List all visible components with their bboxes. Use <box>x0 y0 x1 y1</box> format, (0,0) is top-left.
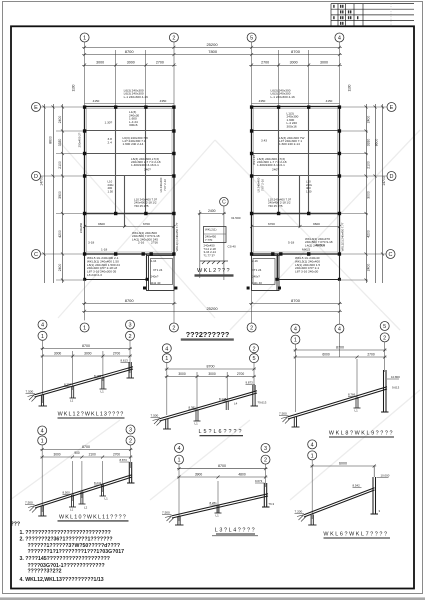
svg-text:9.873: 9.873 <box>246 381 254 385</box>
D1 left end hatches <box>28 395 37 402</box>
D4 dim 8700 <box>40 448 132 451</box>
bubble 2 detail3 right lower <box>380 333 389 342</box>
D5 mid column L1 <box>215 505 222 513</box>
svg-text:2400: 2400 <box>367 264 371 272</box>
svg-text:XT1 24: XT1 24 <box>153 268 163 272</box>
svg-text:1111 40: 1111 40 <box>252 281 262 285</box>
D1 dim 8700 <box>41 347 133 350</box>
D4 mid column L1 <box>69 495 76 508</box>
svg-text:8.185: 8.185 <box>94 374 102 378</box>
D1 mid column L1 b <box>100 377 107 389</box>
right stair box <box>252 256 280 291</box>
D6 left end hatches <box>297 515 306 522</box>
svg-text:3000: 3000 <box>54 352 62 356</box>
left plan band4 small bits <box>108 180 115 194</box>
svg-text:4: 4 <box>311 442 314 448</box>
top dimension line 3000 3000 2700 | 2700 3000 3000 <box>82 64 342 67</box>
svg-text:2700: 2700 <box>261 61 269 65</box>
svg-text:900: 900 <box>74 451 80 455</box>
bubble 2 detail1 right lower <box>126 331 135 340</box>
right plan interior dim line 6700/9600 <box>250 225 341 228</box>
svg-text:1100: 1100 <box>348 84 352 91</box>
D2 mid column L1 <box>194 410 201 422</box>
verticals from plan bottom to bottom bubbles <box>85 280 340 325</box>
D2 sloped beam <box>160 391 258 421</box>
bottom dim 8700 right <box>249 302 342 305</box>
D6 axis line <box>311 460 313 519</box>
svg-text:L3?L4????: L3?L4???? <box>215 527 256 533</box>
svg-text:3000: 3000 <box>178 372 186 376</box>
D1 sloped beam <box>35 367 134 397</box>
svg-text:1.50: 1.50 <box>306 189 312 193</box>
WKL2 reinforcement text <box>204 244 237 258</box>
right plan interior beams <box>252 107 340 228</box>
left plan cell texts band2 <box>108 136 149 146</box>
svg-text:31.500: 31.500 <box>231 216 241 220</box>
svg-text:???????1?1????????1???1?03G?01: ???????1?1????????1???1?03G?017 <box>28 549 125 555</box>
svg-text:1: 1 <box>177 458 180 464</box>
svg-text:3330: 3330 <box>58 139 62 147</box>
D2 right column <box>251 385 259 406</box>
D4 mid column L1 b <box>100 485 107 497</box>
D1 axis lines <box>43 340 131 403</box>
bubble 1 plan-right-right <box>335 324 344 333</box>
svg-text:8700: 8700 <box>82 445 90 449</box>
svg-text:7.500: 7.500 <box>26 390 34 394</box>
D1 mid column L1 a <box>70 386 77 399</box>
svg-text:4: 4 <box>41 323 44 329</box>
svg-text:1: 1 <box>311 453 314 459</box>
svg-text:CS-40: CS-40 <box>228 245 237 249</box>
svg-text:4: 4 <box>41 429 44 435</box>
D6 left column and foot <box>308 515 316 526</box>
svg-text:25200: 25200 <box>206 42 218 47</box>
D3 sloped beam <box>288 387 387 419</box>
svg-text:5-18: 5-18 <box>288 241 294 245</box>
svg-text:L4: L4 <box>234 402 238 406</box>
svg-text:4: 4 <box>338 36 341 42</box>
svg-text:7800: 7800 <box>208 49 218 54</box>
right plan columns <box>247 105 342 289</box>
axis bubble C right <box>386 250 395 259</box>
top dimension line 8700/7800/8700 <box>82 53 342 56</box>
svg-text:4200: 4200 <box>367 230 371 238</box>
svg-text:2700: 2700 <box>156 61 164 65</box>
svg-text:1: 1 <box>165 356 168 362</box>
svg-text:2.4: 2.4 <box>108 141 113 145</box>
svg-text:8700: 8700 <box>336 346 344 350</box>
svg-text:2700: 2700 <box>113 453 120 457</box>
svg-text:2700: 2700 <box>237 372 245 376</box>
svg-text:1111 40: 1111 40 <box>151 281 161 285</box>
right plan main interior beam at axis C' <box>252 213 340 215</box>
svg-text:WKL12?WKL13????: WKL12?WKL13???? <box>58 412 125 418</box>
right plan extension row texts <box>295 256 320 274</box>
svg-text:6000: 6000 <box>322 353 330 357</box>
right plan bottom extension row <box>278 254 340 280</box>
svg-text:L1: L1 <box>355 409 359 413</box>
WKL2 detail axis lines <box>200 206 224 280</box>
bubble 1 plan-left <box>80 323 89 332</box>
svg-text:L8? 3-16 240x30: L8? 3-16 240x30 <box>295 270 319 274</box>
svg-text:9600: 9600 <box>98 222 105 226</box>
left plan text cluster above top edge <box>124 89 149 99</box>
left plan interior beams <box>85 107 175 228</box>
svg-text:WKL8?WKL9????: WKL8?WKL9???? <box>329 430 394 436</box>
svg-text:2100: 2100 <box>89 453 96 457</box>
svg-text:2: 2 <box>383 335 386 341</box>
svg-text:10.000: 10.000 <box>381 474 390 478</box>
svg-text:2100: 2100 <box>367 161 371 169</box>
svg-text:WKL1(1) 240x450 7.77: WKL1(1) 240x450 7.77 <box>175 222 179 251</box>
svg-text:L-1 240x300 4-16: L-1 240x300 4-16 <box>271 95 296 99</box>
svg-text:2400: 2400 <box>208 209 216 213</box>
D3 mid column L1 <box>354 397 361 408</box>
svg-text:2-16: 2-16 <box>252 259 258 263</box>
svg-text:4350: 4350 <box>160 99 167 103</box>
left plan bottom edge bits <box>88 241 158 252</box>
left stair texts <box>151 259 163 285</box>
left plan outer walls <box>85 107 175 255</box>
right plan cell texts band2 <box>261 136 305 146</box>
svg-text:2?16: 2?16 <box>151 241 158 245</box>
svg-text:L8 240 2-3: L8 240 2-3 <box>87 273 102 277</box>
D6 axis bubbles <box>308 440 317 460</box>
svg-text:300x6: 300x6 <box>129 123 138 127</box>
D4 axis bubbles <box>38 425 135 445</box>
axis bubble 5 top <box>247 33 256 42</box>
svg-text:8.148: 8.148 <box>219 397 227 401</box>
svg-text:?40 25 2?5: ?40 25 2?5 <box>134 204 149 208</box>
D3 right column bar <box>381 370 389 412</box>
svg-text:300x16: 300x16 <box>287 124 297 128</box>
left plan extension row texts <box>87 256 120 277</box>
D3 left end hatches <box>281 417 290 424</box>
svg-text:1: 1 <box>41 439 44 445</box>
svg-text:M?6.3: M?6.3 <box>316 243 325 247</box>
D5 right column bar <box>262 483 270 507</box>
svg-text:7.07 2-16: 7.07 2-16 <box>163 179 167 191</box>
bubble 4 detail3 <box>291 324 300 333</box>
svg-text:3000: 3000 <box>290 61 298 65</box>
svg-text:1.600 240 2-14: 1.600 240 2-14 <box>279 142 300 146</box>
svg-text:2-16: 2-16 <box>138 241 144 245</box>
D3 dim 6000/2700 <box>293 356 386 359</box>
svg-text:4. WKL12,WKL13??????????1/13: 4. WKL12,WKL13??????????1/13 <box>20 577 104 583</box>
title block table <box>331 4 414 27</box>
svg-text:2: 2 <box>172 326 175 332</box>
svg-text:2700: 2700 <box>113 352 121 356</box>
svg-text:1: 1 <box>294 338 297 344</box>
D2 mid column L4 <box>226 401 228 411</box>
svg-text:3: 3 <box>264 446 267 452</box>
watermark diagonals <box>10 130 420 500</box>
svg-text:XT1 24: XT1 24 <box>252 268 262 272</box>
D4 dim 3000/900/2100/2700 <box>40 456 132 459</box>
svg-text:???: ??? <box>11 522 21 528</box>
bubble 4 detail1 <box>38 320 47 329</box>
D4 sloped beam <box>35 475 132 508</box>
left plan cell texts band3 <box>131 157 161 172</box>
D5 left column and foot <box>175 516 184 526</box>
D1 level 7.500 <box>26 390 34 394</box>
bubble 2 plan-right-left <box>247 323 256 332</box>
svg-text:L1: L1 <box>105 497 109 501</box>
svg-text:3000: 3000 <box>127 61 135 65</box>
svg-text:L1: L1 <box>216 514 220 518</box>
axis bubble E right <box>386 103 396 259</box>
title block text blobs <box>333 5 358 25</box>
svg-text:2700: 2700 <box>367 353 375 357</box>
svg-text:25200: 25200 <box>206 306 218 311</box>
svg-text:2: 2 <box>252 346 255 352</box>
D5 left end hatches <box>165 516 174 523</box>
svg-text:E: E <box>34 105 38 111</box>
svg-text:D: D <box>34 174 38 180</box>
svg-text:4350: 4350 <box>259 99 266 103</box>
axis extension lines from top bubbles to plan <box>85 42 340 107</box>
svg-text:8700: 8700 <box>82 344 90 348</box>
svg-text:2: 2 <box>128 334 131 340</box>
svg-text:9.673: 9.673 <box>255 479 263 483</box>
WKL2 beam box <box>204 227 227 243</box>
svg-text:L1: L1 <box>70 508 74 512</box>
right plan band4 small bits <box>306 180 313 194</box>
svg-text:3. ????145????????????????????: 3. ????145???????????????????? <box>20 556 110 562</box>
D6 sloped beam <box>304 488 375 517</box>
svg-text:4: 4 <box>294 327 297 333</box>
bubble 5 detail3 right <box>380 322 389 331</box>
D4 mid column L2 <box>79 492 86 505</box>
svg-text:6700: 6700 <box>268 222 275 226</box>
svg-text:3330: 3330 <box>367 139 371 147</box>
left plan wall inner line <box>87 109 173 253</box>
svg-text:1. ???????????????????????????: 1. ??????????????????????????? <box>20 530 111 536</box>
right plan cell texts band3 <box>257 157 287 172</box>
svg-text:1: 1 <box>83 326 86 332</box>
svg-text:L1: L1 <box>101 390 105 394</box>
D1 dim 3000/3000/2700 <box>41 355 133 358</box>
svg-text:3000: 3000 <box>320 61 328 65</box>
svg-text:5: 5 <box>383 324 386 330</box>
svg-text:WKL6?WKL7????: WKL6?WKL7???? <box>323 531 388 537</box>
D2 axis lines <box>167 362 254 415</box>
svg-text:WKL1(1) 240x450 7.77: WKL1(1) 240x450 7.77 <box>341 222 345 251</box>
D5 axis lines <box>179 464 266 521</box>
svg-text:WL1.33: WL1.33 <box>252 155 256 165</box>
svg-text:3: 3 <box>128 323 131 329</box>
axis bubble 1 top <box>80 33 344 42</box>
svg-text:8700: 8700 <box>218 464 226 468</box>
right plan bottom edge bits <box>288 241 325 252</box>
right plan wall inner line <box>254 109 338 253</box>
svg-text:4: 4 <box>338 327 341 333</box>
svg-text:2: 2 <box>172 36 175 42</box>
main plan title underline <box>181 338 234 340</box>
svg-text:7.07 2-16: 7.07 2-16 <box>261 179 265 191</box>
svg-text:??????3?2?2: ??????3?2?2 <box>28 569 62 575</box>
svg-text:?9.613: ?9.613 <box>258 401 267 405</box>
svg-text:1: 1 <box>41 334 44 340</box>
left stair box <box>147 256 175 291</box>
WKL2 base hatch <box>200 261 228 264</box>
scan gray band bottom <box>0 597 425 600</box>
svg-text:10.800: 10.800 <box>391 375 400 379</box>
svg-text:3000: 3000 <box>367 191 371 199</box>
D4 left end hatches <box>28 506 37 513</box>
svg-text:8700: 8700 <box>291 49 301 54</box>
D4 left column and foot <box>38 506 46 517</box>
svg-text:8700: 8700 <box>291 298 301 303</box>
D5 dim 3900/4800 <box>177 476 268 479</box>
svg-text:C: C <box>222 200 226 206</box>
svg-text:C: C <box>34 252 38 258</box>
svg-text:4150: 4150 <box>326 99 333 103</box>
left extension lines to plan <box>40 107 84 280</box>
svg-text:L1: L1 <box>195 422 199 426</box>
svg-text:8.542: 8.542 <box>353 484 361 488</box>
left dim chains <box>43 104 65 283</box>
svg-text:3: 3 <box>129 428 132 434</box>
left plan bottom extension row <box>85 254 147 280</box>
small dim line above plan tops 4150/4350 <box>85 103 340 105</box>
svg-text:2: 2 <box>129 439 132 445</box>
right dim chains <box>365 104 385 283</box>
D5 dim 8700 <box>177 467 268 470</box>
axis bubble 4 top <box>335 33 344 42</box>
svg-text:6700: 6700 <box>143 222 150 226</box>
right plan outer walls <box>252 107 340 255</box>
svg-text:8700: 8700 <box>125 49 135 54</box>
axis bubble 2 top <box>169 33 178 42</box>
right plan text cluster above top edge <box>271 89 296 99</box>
left plan cell texts band1 <box>105 110 140 127</box>
svg-text:2: 2 <box>250 326 253 332</box>
svg-text:L-1 240x300 4-16: L-1 240x300 4-16 <box>124 95 149 99</box>
svg-text:8600: 8600 <box>375 139 379 147</box>
right plan cell texts band5 <box>305 237 333 247</box>
D3 left column and foot <box>292 417 300 428</box>
right plan cell texts band1 <box>287 112 299 129</box>
svg-text:240?: 240? <box>144 168 151 172</box>
svg-text:3000: 3000 <box>53 453 60 457</box>
WKL2 dim 2400 <box>198 212 226 215</box>
bottom dim 25200 <box>82 310 342 313</box>
D2 dim 3000/3000/2700 <box>165 375 256 378</box>
axis bubble C left <box>32 250 41 259</box>
svg-text:240x?: 240x? <box>151 275 159 279</box>
svg-text:7.500: 7.500 <box>162 511 170 515</box>
D2 dim 8700 <box>165 368 256 371</box>
axis bubble D left <box>32 172 41 181</box>
D4 right column bar <box>127 462 135 483</box>
svg-text:2: 2 <box>264 458 267 464</box>
svg-text:4150: 4150 <box>93 99 100 103</box>
bubble 1 detail3 lower <box>291 335 300 344</box>
right stair texts <box>252 259 262 285</box>
svg-text:3900: 3900 <box>195 473 203 477</box>
svg-text:3900: 3900 <box>58 191 62 199</box>
bubble 1 detail1 lower <box>38 331 47 340</box>
svg-text:1: 1 <box>83 36 86 42</box>
svg-text:MKL5: MKL5 <box>302 248 310 252</box>
svg-text:5: 5 <box>250 36 253 42</box>
svg-text:5: 5 <box>252 356 255 362</box>
svg-text:1.50: 1.50 <box>108 189 114 193</box>
D1 left column and foot <box>39 395 48 407</box>
svg-text:9600: 9600 <box>313 222 320 226</box>
right extension lines to plan <box>339 107 387 280</box>
svg-text:4800: 4800 <box>238 473 246 477</box>
svg-text:8.241: 8.241 <box>94 481 102 485</box>
svg-text:2400: 2400 <box>58 116 62 124</box>
svg-text:3000: 3000 <box>96 61 104 65</box>
svg-text:2100: 2100 <box>58 161 62 169</box>
svg-text:3-18: 3-18 <box>88 241 94 245</box>
svg-text:C: C <box>389 252 393 258</box>
top dimension line total 25200 <box>82 46 342 49</box>
svg-text:8600: 8600 <box>49 136 53 144</box>
svg-text:8.500: 8.500 <box>63 491 71 495</box>
left plan columns <box>83 105 177 289</box>
svg-text:9.613: 9.613 <box>392 386 400 390</box>
left plan interior dim line 9600/6700 <box>83 225 175 228</box>
svg-text:8700: 8700 <box>125 298 135 303</box>
svg-text:L5?L6????: L5?L6???? <box>199 429 244 435</box>
svg-text:8.766: 8.766 <box>348 393 356 397</box>
svg-text:4: 4 <box>165 346 168 352</box>
left plan cell texts band5 <box>132 231 160 241</box>
svg-text:L1: L1 <box>70 399 74 403</box>
D5 axis bubbles <box>175 444 271 465</box>
D4 axis lines <box>42 445 130 512</box>
svg-text:2-16: 2-16 <box>151 259 157 263</box>
axis bubble D right <box>387 172 396 181</box>
D2 axis bubbles <box>162 344 258 363</box>
svg-text:14700: 14700 <box>40 176 44 186</box>
svg-text:7.500: 7.500 <box>279 412 287 416</box>
svg-text:250x450 2?: 250x450 2? <box>78 132 82 147</box>
svg-text:3.43: 3.43 <box>261 139 267 143</box>
D2 left end hatches <box>153 419 162 426</box>
svg-text:8.397: 8.397 <box>64 383 72 387</box>
svg-text:4200: 4200 <box>58 230 62 238</box>
svg-text:7.7?0: 7.7?0 <box>205 238 213 242</box>
svg-text:2400: 2400 <box>58 264 62 272</box>
bubble 2 plan-left-right <box>169 323 178 332</box>
D5 sloped beam <box>172 494 268 518</box>
svg-text:1-18: 1-18 <box>101 248 107 252</box>
svg-text:2. ???????2?36?1???????1??????: 2. ???????2?36?1???????1??????? <box>20 536 113 542</box>
svg-text:WKL2(1): WKL2(1) <box>205 228 216 232</box>
svg-text:8.381: 8.381 <box>189 406 197 410</box>
svg-text:8.613: 8.613 <box>121 359 129 363</box>
svg-text:???2??????: ???2?????? <box>186 330 230 339</box>
svg-text:1.600 240 2-14: 1.600 240 2-14 <box>123 142 144 146</box>
svg-text:D: D <box>390 174 394 180</box>
svg-text:14700: 14700 <box>382 176 386 186</box>
D3 axis lines <box>295 333 384 412</box>
svg-text:1100: 1100 <box>72 84 76 91</box>
svg-text:7.500: 7.500 <box>25 501 33 505</box>
svg-text:7.500: 7.500 <box>151 414 159 418</box>
svg-text:L2: L2 <box>84 506 88 510</box>
svg-text:7.200: 7.200 <box>295 510 303 514</box>
svg-text:1.30?: 1.30? <box>105 121 113 125</box>
axis bubble C middle <box>220 197 229 206</box>
svg-text:WKL2???: WKL2??? <box>197 268 231 274</box>
D3 dim 8700 <box>293 349 386 352</box>
